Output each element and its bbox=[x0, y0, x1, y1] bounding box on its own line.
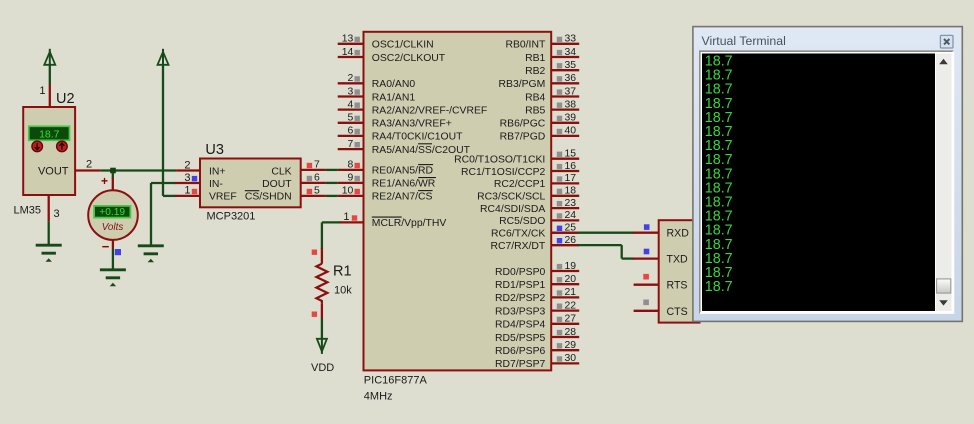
voltmeter + pin stub bbox=[112, 178, 114, 192]
svg-text:1: 1 bbox=[39, 85, 45, 97]
svg-text:33: 33 bbox=[565, 34, 577, 45]
pin number 33 (U1) + state square bbox=[557, 34, 576, 45]
pin number 24 (U1) + state square bbox=[557, 210, 576, 221]
pin 13 stub of U1 bbox=[338, 43, 364, 45]
svg-text:RA3/AN3/VREF+: RA3/AN3/VREF+ bbox=[372, 119, 452, 130]
pin number 38 (U1) + state square bbox=[557, 99, 576, 110]
pin 30 stub of U1 bbox=[551, 362, 579, 364]
svg-text:21: 21 bbox=[565, 287, 577, 298]
pin number 6 (U1) + state square bbox=[348, 126, 360, 137]
logic state square (CTS) bbox=[643, 300, 649, 306]
svg-text:20: 20 bbox=[565, 274, 577, 285]
pin 25 stub of U1 bbox=[551, 232, 579, 234]
pin 22 stub of U1 bbox=[551, 309, 579, 311]
part label PIC16F877A bbox=[364, 375, 428, 387]
svg-text:40: 40 bbox=[565, 126, 577, 137]
TXD pin stub of terminal bbox=[633, 257, 659, 259]
svg-text:36: 36 bbox=[565, 73, 577, 84]
svg-text:U2: U2 bbox=[56, 91, 75, 107]
wire RX net bbox=[578, 245, 635, 259]
svg-text:RD0/PSP0: RD0/PSP0 bbox=[495, 267, 545, 278]
svg-text:16: 16 bbox=[565, 161, 577, 172]
voltmeter display bbox=[94, 206, 130, 218]
svg-text:28: 28 bbox=[565, 327, 577, 338]
virtual terminal component body bbox=[659, 220, 700, 322]
MCP3201 U3 body bbox=[200, 159, 301, 208]
pin number 39 (U1) + state square bbox=[557, 113, 576, 124]
pin 3 stub of U2 bbox=[48, 195, 50, 221]
svg-text:−: − bbox=[102, 239, 110, 254]
pin number 37 (U1) + state square bbox=[557, 86, 576, 97]
pin 29 stub of U1 bbox=[551, 349, 579, 351]
pin 6 stub of U1 bbox=[338, 135, 364, 137]
svg-text:RA4/T0CKI/C1OUT: RA4/T0CKI/C1OUT bbox=[372, 132, 463, 143]
svg-text:1: 1 bbox=[184, 185, 190, 197]
pin 37 stub of U1 bbox=[551, 95, 579, 97]
pin number 4 (U1) + state square bbox=[348, 99, 360, 110]
svg-text:MCP3201: MCP3201 bbox=[207, 211, 256, 223]
svg-text:RC1/T1OSI/CCP2: RC1/T1OSI/CCP2 bbox=[461, 167, 546, 178]
svg-text:29: 29 bbox=[565, 340, 577, 351]
svg-text:7: 7 bbox=[314, 160, 320, 171]
svg-text:+0.19: +0.19 bbox=[99, 207, 125, 218]
pin 10 stub of U1 bbox=[338, 195, 364, 197]
svg-text:RD4/PSP4: RD4/PSP4 bbox=[495, 320, 545, 331]
pin 23 stub of U1 bbox=[551, 207, 579, 209]
pin 21 stub of U1 bbox=[551, 296, 579, 298]
pin 24 stub of U1 bbox=[551, 219, 579, 221]
ground (U3 IN-) bbox=[138, 246, 164, 262]
pin 2 stub of U1 bbox=[338, 82, 364, 84]
wire U2 pin1 to power bbox=[49, 64, 51, 84]
svg-text:RC4/SDI/SDA: RC4/SDI/SDA bbox=[480, 204, 545, 215]
svg-text:RE1/AN6/WR: RE1/AN6/WR bbox=[372, 179, 436, 190]
svg-text:Virtual Terminal: Virtual Terminal bbox=[702, 34, 786, 48]
svg-text:RD3/PSP3: RD3/PSP3 bbox=[495, 306, 545, 317]
wire power to VREF bbox=[163, 64, 176, 196]
svg-text:22: 22 bbox=[565, 300, 577, 311]
svg-text:27: 27 bbox=[565, 314, 577, 325]
svg-text:6: 6 bbox=[348, 126, 354, 137]
pin 7 stub of U3 bbox=[301, 169, 326, 171]
pin number 18 (U1) + state square bbox=[557, 186, 576, 197]
svg-text:RB7/PGD: RB7/PGD bbox=[500, 132, 546, 143]
svg-text:35: 35 bbox=[565, 60, 577, 71]
power terminal (VREF supply) bbox=[158, 49, 169, 65]
pin 28 stub of U1 bbox=[551, 336, 579, 338]
RTS pin stub of terminal bbox=[634, 284, 659, 286]
value label 10k bbox=[334, 285, 352, 297]
svg-text:VOUT: VOUT bbox=[38, 166, 69, 178]
svg-text:23: 23 bbox=[565, 198, 577, 209]
svg-text:MCLR/Vpp/THV: MCLR/Vpp/THV bbox=[372, 218, 447, 229]
part label 4MHz bbox=[364, 391, 393, 403]
pin number 8 (U1) + state square bbox=[348, 160, 360, 171]
svg-text:RB3/PGM: RB3/PGM bbox=[499, 79, 546, 90]
pin number 2 (U2) bbox=[86, 159, 92, 171]
svg-text:CLK: CLK bbox=[271, 166, 291, 177]
svg-text:RD7/PSP7: RD7/PSP7 bbox=[495, 359, 545, 370]
CTS pin stub of terminal bbox=[634, 310, 659, 312]
svg-text:CS/SHDN: CS/SHDN bbox=[245, 192, 292, 203]
part label MCP3201 bbox=[207, 211, 256, 223]
svg-text:RC5/SDO: RC5/SDO bbox=[499, 216, 545, 227]
svg-text:18.7: 18.7 bbox=[39, 128, 60, 140]
svg-text:18: 18 bbox=[565, 186, 577, 197]
window close button bbox=[940, 35, 953, 48]
svg-text:VREF: VREF bbox=[209, 192, 237, 203]
designator U2 bbox=[56, 91, 75, 107]
svg-text:RA0/AN0: RA0/AN0 bbox=[372, 79, 416, 90]
pin number 13 (U1) + state square bbox=[342, 34, 360, 45]
pin number 7 (U3) + state square bbox=[307, 160, 320, 171]
terminal black screen bbox=[702, 54, 935, 312]
power terminal (U2 pin 1 supply) bbox=[44, 49, 55, 65]
pin 9 stub of U1 bbox=[338, 182, 364, 184]
svg-text:1: 1 bbox=[343, 211, 349, 223]
pin 34 stub of U1 bbox=[551, 56, 579, 58]
svg-text:RA2/AN2/VREF-/CVREF: RA2/AN2/VREF-/CVREF bbox=[372, 105, 487, 116]
voltmeter - pin stub bbox=[112, 239, 114, 249]
pin 20 stub of U1 bbox=[551, 283, 579, 285]
ground (U2) bbox=[36, 245, 62, 262]
pin number 16 (U1) + state square bbox=[557, 161, 576, 172]
pin 27 stub of U1 bbox=[551, 323, 579, 325]
pin 25 stub of U1 (RC6/TX) bbox=[551, 232, 578, 234]
svg-text:+: + bbox=[101, 174, 108, 188]
pin 5 stub of U1 bbox=[338, 122, 364, 124]
pin 2 stub of U2 bbox=[75, 169, 101, 171]
svg-text:7: 7 bbox=[348, 139, 354, 150]
pin 14 stub of U1 bbox=[338, 56, 364, 58]
pin 3 stub of U3 (IN-) bbox=[175, 182, 200, 184]
svg-text:2: 2 bbox=[184, 159, 190, 171]
svg-text:15: 15 bbox=[565, 149, 577, 160]
pin 3 stub of U1 bbox=[338, 95, 364, 97]
voltmeter minus sign bbox=[102, 239, 110, 254]
pin 7 stub of U1 bbox=[338, 148, 364, 150]
pin number 5 (U1) + state square bbox=[348, 113, 360, 124]
pin label VOUT bbox=[38, 166, 69, 178]
pin 35 stub of U1 bbox=[551, 69, 579, 71]
svg-text:Volts: Volts bbox=[102, 222, 124, 233]
logic state square (RTS) bbox=[643, 274, 649, 280]
U2 down button bbox=[32, 141, 43, 152]
svg-text:RD2/PSP2: RD2/PSP2 bbox=[495, 293, 545, 304]
svg-text:RE2/AN7/CS: RE2/AN7/CS bbox=[372, 192, 433, 203]
pin number 17 (U1) + state square bbox=[557, 173, 576, 184]
pin number 3 (U3) + state square bbox=[184, 172, 197, 184]
svg-text:38: 38 bbox=[565, 99, 577, 110]
svg-text:OSC2/CLKOUT: OSC2/CLKOUT bbox=[372, 53, 446, 64]
svg-text:14: 14 bbox=[342, 47, 354, 58]
pin number 29 (U1) + state square bbox=[557, 340, 576, 351]
svg-text:RC6/TX/CK: RC6/TX/CK bbox=[491, 229, 545, 240]
pin number 15 (U1) + state square bbox=[557, 149, 576, 160]
svg-text:LM35: LM35 bbox=[14, 205, 42, 217]
pin number 23 (U1) + state square bbox=[557, 198, 576, 209]
PIC16F877A U1 body bbox=[364, 32, 552, 371]
pin 2 stub of U3 (IN+) bbox=[176, 169, 200, 171]
pin number 10 (U1) + state square bbox=[342, 186, 360, 197]
pin number 14 (U1) + state square bbox=[342, 47, 360, 58]
pin 1 stub of U1 (MCLR) bbox=[339, 221, 364, 223]
svg-text:RC7/RX/DT: RC7/RX/DT bbox=[490, 241, 545, 252]
LM35 U2 body bbox=[23, 107, 75, 195]
svg-text:2: 2 bbox=[86, 159, 92, 171]
terminal text lines 18.7 bbox=[705, 54, 733, 296]
pin 39 stub of U1 bbox=[551, 122, 579, 124]
pin number 20 (U1) + state square bbox=[557, 274, 576, 285]
RXD pin stub of terminal bbox=[633, 232, 659, 234]
svg-text:RC0/T1OSO/T1CKI: RC0/T1OSO/T1CKI bbox=[454, 155, 545, 166]
virtual terminal window frame bbox=[693, 27, 962, 322]
svg-text:30: 30 bbox=[565, 353, 577, 364]
svg-text:3: 3 bbox=[184, 172, 190, 184]
svg-text:RXD: RXD bbox=[667, 228, 690, 240]
svg-text:3: 3 bbox=[348, 86, 354, 97]
wire U3 IN- to ground bbox=[151, 183, 176, 246]
pin 8 stub of U1 bbox=[338, 169, 364, 171]
pin 1 stub of U2 bbox=[49, 84, 51, 108]
wire U3 pin 6 to PIC pin 9 bbox=[326, 182, 338, 184]
svg-text:RC2/CCP1: RC2/CCP1 bbox=[494, 179, 546, 190]
svg-text:IN-: IN- bbox=[209, 179, 223, 190]
svg-text:R1: R1 bbox=[333, 264, 352, 280]
svg-text:RD6/PSP6: RD6/PSP6 bbox=[495, 346, 545, 357]
resistor R1 bbox=[316, 248, 327, 319]
wire voltmeter minus to ground bbox=[112, 249, 114, 270]
svg-text:34: 34 bbox=[565, 47, 577, 58]
pin number 22 (U1) + state square bbox=[557, 300, 576, 311]
svg-text:RB6/PGC: RB6/PGC bbox=[500, 119, 546, 130]
pin 38 stub of U1 bbox=[551, 108, 579, 110]
logic state square (voltmeter minus) bbox=[115, 249, 121, 255]
svg-text:RB2: RB2 bbox=[525, 66, 545, 77]
pin 6 stub of U3 bbox=[301, 182, 326, 184]
voltmeter plus sign bbox=[101, 174, 108, 188]
svg-text:RC3/SCK/SCL: RC3/SCK/SCL bbox=[477, 192, 545, 203]
pin 26 stub of U1 (RC7/RX) bbox=[551, 244, 578, 246]
svg-text:6: 6 bbox=[314, 173, 320, 184]
svg-text:CTS: CTS bbox=[667, 306, 688, 318]
svg-text:8: 8 bbox=[348, 160, 354, 171]
U2 display mount ticks bbox=[35, 140, 64, 142]
pin number 36 (U1) + state square bbox=[557, 73, 576, 84]
pin number 30 (U1) + state square bbox=[557, 353, 576, 364]
part label LM35 bbox=[14, 205, 42, 217]
pin 18 stub of U1 bbox=[551, 195, 579, 197]
wire R1 to VDD bbox=[321, 319, 323, 340]
U3 pin labels bbox=[209, 166, 292, 202]
svg-text:2: 2 bbox=[348, 73, 354, 84]
svg-text:VDD: VDD bbox=[311, 362, 334, 374]
wire U2 pin3 to ground bbox=[48, 221, 50, 245]
pin 4 stub of U1 bbox=[338, 108, 364, 110]
wire voltmeter plus bbox=[112, 171, 114, 179]
pin 26 stub of U1 bbox=[551, 244, 579, 246]
U2 up button bbox=[57, 141, 68, 152]
logic state square (RXD) bbox=[644, 224, 650, 230]
pin number 34 (U1) + state square bbox=[557, 47, 576, 58]
terminal scrollbar bbox=[936, 54, 952, 312]
logic state square (R1 bottom) bbox=[312, 312, 317, 317]
svg-text:RB5: RB5 bbox=[525, 105, 545, 116]
svg-text:RE0/AN5/RD: RE0/AN5/RD bbox=[372, 166, 433, 177]
wire MCLR to R1 bbox=[322, 222, 340, 249]
svg-text:10k: 10k bbox=[334, 285, 352, 297]
U2 temperature display bbox=[29, 126, 70, 140]
wire U3 pin 7 to PIC pin 8 bbox=[326, 169, 338, 171]
svg-text:4: 4 bbox=[348, 99, 354, 110]
pin number 40 (U1) + state square bbox=[557, 126, 576, 137]
pin number 27 (U1) + state square bbox=[557, 314, 576, 325]
logic state square (TXD) bbox=[644, 249, 650, 255]
pin number 1 (U2) bbox=[39, 85, 45, 97]
pin number 9 (U1) + state square bbox=[348, 173, 360, 184]
voltmeter label Volts bbox=[102, 222, 124, 233]
svg-text:5: 5 bbox=[314, 186, 320, 197]
power terminal VDD bbox=[317, 339, 327, 354]
terminal pin labels bbox=[667, 228, 690, 318]
pin number 35 (U1) + state square bbox=[557, 60, 576, 71]
pin number 28 (U1) + state square bbox=[557, 327, 576, 338]
svg-text:PIC16F877A: PIC16F877A bbox=[364, 375, 428, 387]
svg-text:RB4: RB4 bbox=[525, 92, 545, 103]
svg-text:9: 9 bbox=[348, 173, 354, 184]
U1 left pin labels bbox=[372, 40, 487, 230]
svg-text:18.7: 18.7 bbox=[705, 279, 733, 295]
junction VOUT node bbox=[110, 168, 116, 174]
svg-text:13: 13 bbox=[342, 34, 354, 45]
terminal screen sunken panel bbox=[700, 51, 954, 313]
svg-text:RD5/PSP5: RD5/PSP5 bbox=[495, 333, 545, 344]
svg-text:OSC1/CLKIN: OSC1/CLKIN bbox=[372, 40, 434, 51]
pin number 26 (U1) + state square bbox=[557, 235, 576, 246]
svg-text:24: 24 bbox=[565, 210, 577, 221]
pin 33 stub of U1 bbox=[551, 43, 579, 45]
svg-text:3: 3 bbox=[54, 208, 60, 220]
logic state square (R1 top) bbox=[312, 250, 317, 255]
pin number 5 (U3) + state square bbox=[307, 186, 320, 197]
wire VOUT net bbox=[101, 169, 177, 171]
svg-text:RB1: RB1 bbox=[525, 53, 545, 64]
pin number 2 (U1) + state square bbox=[348, 73, 360, 84]
pin 40 stub of U1 bbox=[551, 135, 579, 137]
pin number 21 (U1) + state square bbox=[557, 287, 576, 298]
pin 36 stub of U1 bbox=[551, 82, 579, 84]
svg-text:RTS: RTS bbox=[667, 280, 688, 292]
svg-text:RA1/AN1: RA1/AN1 bbox=[372, 92, 416, 103]
pin number 19 (U1) + state square bbox=[557, 261, 576, 272]
pin number 3 (U2) bbox=[54, 208, 60, 220]
svg-text:DOUT: DOUT bbox=[262, 179, 292, 190]
svg-text:TXD: TXD bbox=[667, 254, 689, 266]
svg-text:IN+: IN+ bbox=[209, 166, 225, 177]
svg-text:RD1/PSP1: RD1/PSP1 bbox=[495, 280, 545, 291]
svg-text:19: 19 bbox=[565, 261, 577, 272]
pin 15 stub of U1 bbox=[551, 158, 579, 160]
voltmeter body bbox=[88, 190, 138, 240]
pin number 3 (U1) + state square bbox=[348, 86, 360, 97]
designator R1 bbox=[333, 264, 352, 280]
wire TX net bbox=[578, 232, 634, 234]
pin number 25 (U1) + state square bbox=[557, 223, 576, 234]
pin number 1 (U3) + state square bbox=[184, 185, 197, 197]
svg-text:39: 39 bbox=[565, 113, 577, 124]
svg-text:37: 37 bbox=[565, 86, 577, 97]
pin 17 stub of U1 bbox=[551, 182, 579, 184]
designator U3 bbox=[205, 142, 224, 158]
pin 16 stub of U1 bbox=[551, 170, 579, 172]
pin 19 stub of U1 bbox=[551, 270, 579, 272]
svg-text:4MHz: 4MHz bbox=[364, 391, 393, 403]
ground (voltmeter) bbox=[100, 270, 126, 287]
pin 1 stub of U3 (VREF) bbox=[175, 195, 200, 197]
pin number 6 (U3) + state square bbox=[307, 173, 320, 184]
pin number 7 (U1) + state square bbox=[348, 139, 360, 150]
pin number 1 (U1) + state square bbox=[343, 211, 357, 223]
net label VDD bbox=[311, 362, 334, 374]
wire U3 pin 5 to PIC pin 10 bbox=[326, 195, 338, 197]
svg-text:10: 10 bbox=[342, 186, 354, 197]
window title Virtual Terminal bbox=[702, 34, 786, 48]
pin number 2 (U3) bbox=[184, 159, 190, 171]
svg-text:17: 17 bbox=[565, 173, 577, 184]
svg-text:U3: U3 bbox=[205, 142, 224, 158]
active-low overlines (U1) bbox=[372, 144, 436, 217]
svg-text:RB0/INT: RB0/INT bbox=[505, 40, 545, 51]
svg-text:5: 5 bbox=[348, 113, 354, 124]
U1 right pin labels bbox=[454, 40, 546, 371]
pin 5 stub of U3 bbox=[301, 195, 326, 197]
